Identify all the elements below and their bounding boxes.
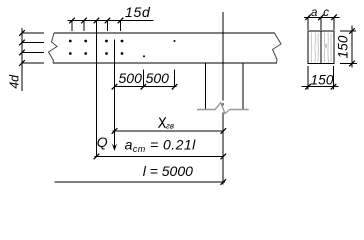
- svg-text:500: 500: [146, 70, 170, 86]
- svg-text:c: c: [323, 7, 329, 19]
- svg-text:15d: 15d: [125, 4, 151, 20]
- svg-text:l = 5000: l = 5000: [143, 163, 193, 179]
- svg-text:4d: 4d: [7, 74, 21, 89]
- svg-text:500: 500: [119, 70, 143, 86]
- svg-text:150: 150: [311, 73, 334, 88]
- svg-text:Q: Q: [97, 134, 108, 150]
- svg-text:150: 150: [335, 35, 350, 58]
- svg-text:a: a: [311, 7, 317, 19]
- svg-text:гв: гв: [166, 122, 174, 131]
